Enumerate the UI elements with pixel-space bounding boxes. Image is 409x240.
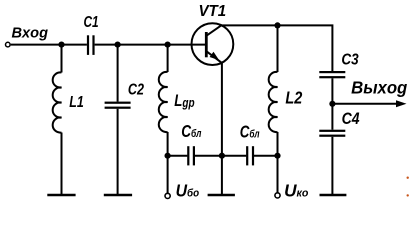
- artifact dot 1: [407, 177, 409, 179]
- ground C2: [104, 194, 132, 197]
- svg-text:C1: C1: [84, 12, 99, 30]
- svg-text:C3: C3: [341, 52, 359, 69]
- ground L1: [47, 194, 75, 197]
- wire C2 top: [117, 45, 119, 102]
- svg-text:C4: C4: [342, 110, 360, 128]
- transistor emitter lead: [206, 51, 222, 63]
- capacitor C1 plates: [87, 35, 89, 55]
- transistor collector lead: [206, 25, 221, 35]
- junction node C1-L1: [58, 42, 64, 48]
- wire Cbl2 to L2: [254, 155, 278, 157]
- ground emitter: [208, 194, 235, 197]
- capacitor C4 plates: [319, 130, 345, 132]
- transistor emitter arrowhead: [210, 52, 220, 60]
- svg-text:Bыxog: Bыxog: [351, 79, 408, 98]
- svg-text:L2: L2: [285, 90, 302, 108]
- svg-text:VT1: VT1: [199, 3, 227, 20]
- capacitor Cbl2 plates: [246, 146, 248, 165]
- transistor base bar: [205, 32, 208, 57]
- wire L1 top: [61, 45, 63, 73]
- wire top collector run: [221, 25, 332, 71]
- inductor L1: [53, 72, 62, 132]
- terminal Uko: [275, 193, 280, 198]
- wire emitter vertical: [221, 63, 223, 195]
- wire input to C1: [11, 44, 87, 46]
- junction node Ldr top: [165, 42, 171, 48]
- capacitor C3 plates: [319, 71, 345, 73]
- junction node output: [329, 101, 335, 107]
- wire emitter to Cbl2: [222, 155, 246, 157]
- capacitor C2 plates: [105, 102, 131, 104]
- wire L2 top: [277, 25, 279, 72]
- wire L2 bottom: [277, 132, 279, 193]
- wire C2 bottom: [117, 109, 119, 195]
- svg-text:L1: L1: [69, 94, 84, 112]
- output arrowhead: [396, 100, 407, 107]
- svg-text:Bxog: Bxog: [12, 26, 48, 42]
- wire Ldr bottom: [167, 132, 169, 193]
- terminal input: [6, 42, 11, 47]
- junction node emitter-Cbl: [219, 153, 225, 159]
- inductor L2: [269, 72, 278, 132]
- wire C3 to C4: [331, 78, 333, 129]
- capacitor Cbl1 plates: [187, 146, 189, 165]
- wire Ldr to Cbl1: [168, 155, 188, 157]
- wire C4 to ground: [331, 137, 333, 195]
- wire L1 bottom: [61, 133, 63, 196]
- inductor Ldr: [159, 72, 168, 132]
- junction node Ldr-Cbl: [165, 153, 171, 159]
- artifact dot 2: [407, 194, 409, 196]
- svg-text:C2: C2: [128, 81, 144, 99]
- junction node L2 top: [274, 22, 280, 28]
- wire C1 to base: [95, 44, 207, 46]
- junction node L2-Cbl: [274, 153, 280, 159]
- transistor VT1 circle: [192, 23, 234, 65]
- wire Ldr top: [167, 45, 169, 72]
- ground C4: [320, 194, 347, 197]
- wire output arrow line: [332, 103, 398, 105]
- wire Cbl1 to emitter: [195, 155, 222, 157]
- terminal Ubo: [165, 193, 170, 198]
- junction node C2 top: [115, 42, 121, 48]
